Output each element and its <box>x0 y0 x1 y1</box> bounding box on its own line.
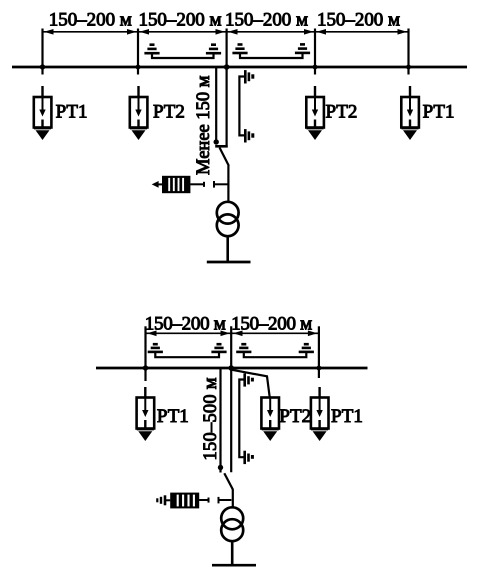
dimension tick T5 <box>407 29 409 75</box>
svg-text:РТ2: РТ2 <box>153 102 185 123</box>
svg-text:150–500 м: 150–500 м <box>201 377 221 460</box>
svg-text:150–200 м: 150–200 м <box>145 314 226 335</box>
wire: overhead line L1 (top) <box>12 66 467 69</box>
svg-text:150–200 м: 150–200 м <box>49 10 132 31</box>
grounded overhead section right (cable protection bracket) <box>232 44 310 58</box>
svg-text:150–200 м: 150–200 м <box>231 314 312 335</box>
junction dots on line L2 <box>143 365 321 371</box>
contact dot <box>218 465 223 470</box>
arrester PT1 (bottom, right) <box>311 387 329 441</box>
ground bus (top) <box>207 261 251 264</box>
tubular arrester with external gap (bottom) <box>157 493 231 509</box>
ground bus (bottom) <box>212 564 256 567</box>
arrester PT2 (bottom) <box>261 398 279 442</box>
svg-text:150–200 м: 150–200 м <box>225 10 308 31</box>
cable sheath grounding bracket (top diagram) <box>239 70 252 142</box>
svg-text:Менее 150 м: Менее 150 м <box>194 75 214 175</box>
transformer neutral lead (bottom) <box>231 541 234 565</box>
dimension arrows span 2 <box>140 29 226 35</box>
svg-text:РТ1: РТ1 <box>157 406 189 427</box>
arrester PT1 (top, col1) <box>34 86 52 140</box>
branch wire to PT2 (bottom) <box>232 370 270 398</box>
grounded overhead section left (cable protection bracket) <box>144 45 221 58</box>
svg-text:150–200 м: 150–200 м <box>139 10 222 31</box>
svg-text:150–200 м: 150–200 м <box>317 10 400 31</box>
dimension arrows span B1 <box>147 331 230 337</box>
disconnector blade <box>220 148 229 166</box>
tubular arrester with external gap (top) <box>152 176 228 193</box>
cable down conductor left (bottom) <box>219 368 221 473</box>
junction dots on line L1 <box>40 64 411 70</box>
transformer (bottom) <box>221 507 243 541</box>
transformer neutral lead <box>226 236 229 262</box>
dimension line (bottom) <box>146 332 319 334</box>
dimension arrows span 1 <box>44 29 137 35</box>
dimension arrows span 4 <box>317 29 408 35</box>
svg-text:РТ1: РТ1 <box>331 406 363 427</box>
transformer (top) <box>217 202 239 236</box>
dimension tick T4 <box>314 29 316 75</box>
arrester PT1 (top, col4) <box>401 86 419 140</box>
dimension tick T2 <box>137 29 139 75</box>
dimension tick T3 / cable down conductor right <box>226 29 228 146</box>
dimension tick B1 <box>144 326 146 381</box>
svg-text:РТ2: РТ2 <box>326 102 358 123</box>
disconnector blade (bottom) <box>224 473 233 490</box>
wire: overhead line L2 (bottom) <box>96 367 368 370</box>
dimension tick T1 <box>41 29 43 75</box>
arrester PT2 (top, col3) <box>306 86 324 140</box>
junction dot cable bottom <box>214 139 219 144</box>
dimension line (top) <box>43 31 409 33</box>
svg-text:РТ1: РТ1 <box>56 102 88 123</box>
cable down conductor left <box>215 67 217 143</box>
grounded overhead section left (bottom) <box>148 344 227 357</box>
feeder to transformer (bottom) <box>232 490 234 508</box>
svg-text:РТ2: РТ2 <box>279 406 311 427</box>
contact bar <box>215 145 228 148</box>
cable down conductor right (bottom, from tick B2) <box>230 326 232 472</box>
cable sheath grounding bracket (bottom diagram) <box>239 373 252 464</box>
dimension tick B3 <box>318 326 320 378</box>
dimension arrows span 3 <box>228 29 314 35</box>
arrester PT1 (bottom, left) <box>137 387 155 441</box>
dimension arrows span B2 <box>233 331 317 337</box>
svg-text:РТ1: РТ1 <box>423 102 455 123</box>
grounded overhead section right (bottom) <box>236 344 314 357</box>
arrester PT2 (top, col2) <box>130 86 148 140</box>
feeder to transformer <box>227 166 229 203</box>
